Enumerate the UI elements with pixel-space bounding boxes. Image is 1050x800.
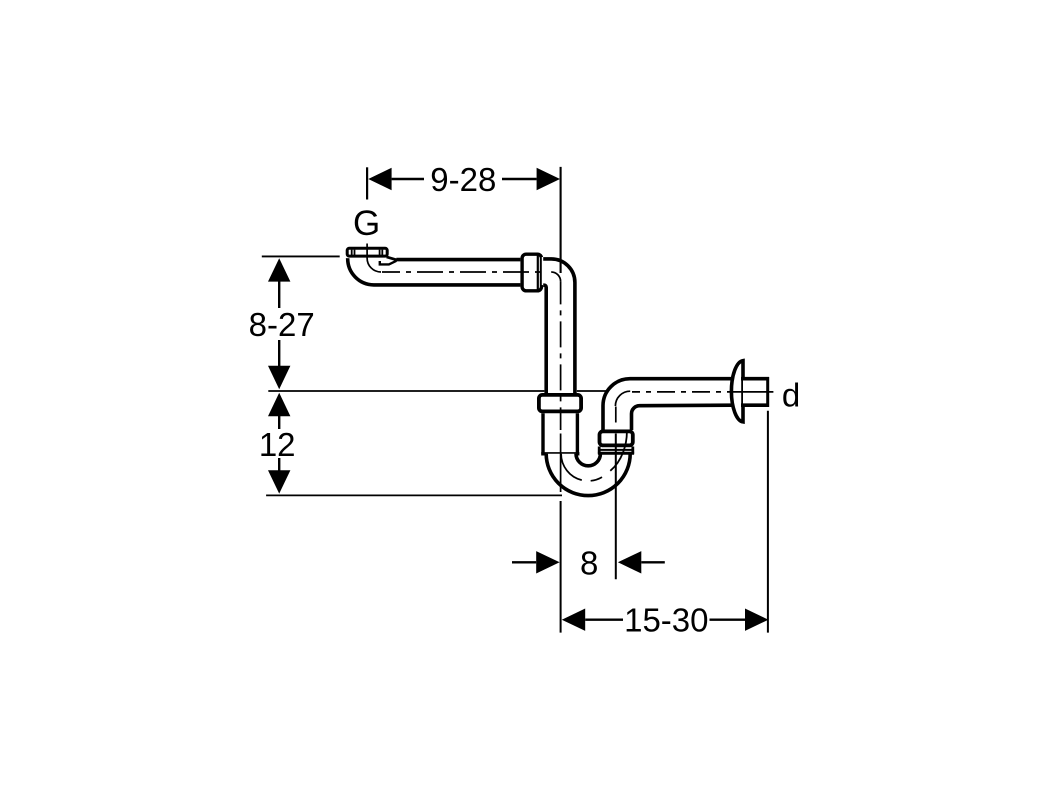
reference line top (8-27 upper extension) bbox=[262, 255, 340, 257]
nut 1 (horizontal pipe union) bbox=[522, 254, 541, 291]
dimension 15-30 left arrow bbox=[562, 609, 585, 631]
elbow inner curve and left edge of down pipe bbox=[543, 285, 546, 393]
svg-text:15-30: 15-30 bbox=[624, 602, 708, 639]
inlet pipe outer curve and bottom edge bbox=[348, 258, 521, 285]
svg-text:d: d bbox=[782, 376, 800, 413]
dimension 8-27 line bbox=[278, 280, 280, 308]
centerline: rising pipe bbox=[615, 407, 617, 423]
inlet pipe neck chamfer bbox=[387, 257, 397, 260]
dimension 12 arrow up bbox=[268, 393, 290, 416]
nut 2 (trap inlet nut) bbox=[539, 395, 581, 412]
dimension 9-28 extension left bbox=[366, 167, 368, 199]
dimension 8-27 arrow down bbox=[268, 366, 290, 389]
svg-text:8-27: 8-27 bbox=[249, 306, 315, 343]
U-bend outer arc bbox=[546, 454, 630, 496]
outlet elbow and pipe fill bbox=[603, 379, 768, 430]
elbow outer curve and right edge of down pipe bbox=[543, 259, 575, 394]
dimension 12 arrow down bbox=[268, 470, 290, 493]
dimension 8-27 arrow up bbox=[268, 258, 290, 281]
dimension 8 extension left bbox=[560, 501, 562, 633]
U-bend flow line bbox=[610, 432, 627, 471]
nut 3 (trap outlet nut) bbox=[600, 431, 633, 445]
dimension 9-28 extension right bbox=[560, 167, 562, 273]
svg-text:12: 12 bbox=[259, 426, 296, 463]
reference line middle (outlet axis extension) bbox=[268, 390, 545, 392]
svg-text:8: 8 bbox=[580, 545, 598, 582]
centerline: elbow 2 arc bbox=[615, 391, 630, 406]
outlet wall flange bbox=[731, 361, 743, 422]
outlet elbow inner curve and bottom edge bbox=[632, 405, 732, 430]
inlet neck hook bbox=[380, 261, 397, 265]
centerline: horizontal pipe bbox=[382, 271, 546, 273]
trap inlet socket bbox=[543, 411, 577, 454]
svg-text:G: G bbox=[353, 204, 380, 243]
dimension 15-30 extension right bbox=[767, 411, 769, 633]
dimension 9-28 arrow left bbox=[368, 168, 391, 190]
U-bend centerline arc bbox=[561, 454, 615, 481]
centerline: down pipe bbox=[560, 281, 562, 430]
U-bend inner arc bbox=[576, 454, 600, 466]
inlet flange G bbox=[347, 248, 387, 256]
dimension 8 left arrow bbox=[536, 551, 559, 573]
U-bend fill bbox=[546, 454, 630, 496]
svg-text:9-28: 9-28 bbox=[430, 161, 496, 198]
reference line bottom (trap depth) bbox=[266, 494, 562, 496]
centerline: elbow 1 arc bbox=[551, 272, 560, 281]
inlet bend fill bbox=[347, 257, 521, 285]
centerline: inlet flange vertical bbox=[367, 244, 381, 273]
dimension 9-28 line bbox=[392, 178, 424, 180]
centerline: outlet pipe solid through flange bbox=[733, 391, 773, 393]
elbow down fill bbox=[542, 257, 577, 394]
dimension 12 line bbox=[278, 414, 280, 429]
flange slots bbox=[351, 250, 353, 257]
inlet pipe top edge bbox=[396, 258, 520, 262]
trap outlet ring bbox=[598, 447, 634, 455]
centerline: outlet pipe dashed bbox=[632, 391, 733, 393]
outlet elbow outer curve and top edge bbox=[603, 379, 732, 430]
dimension 8 right arrow bbox=[618, 551, 641, 573]
dimension 15-30 right arrow bbox=[745, 609, 768, 631]
dimension 9-28 arrow right bbox=[537, 168, 560, 190]
outlet pipe end section bbox=[743, 380, 766, 404]
